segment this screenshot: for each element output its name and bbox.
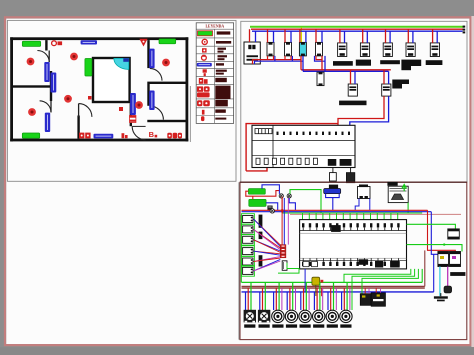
wires to detector D1	[339, 29, 341, 43]
svg-text:B: B	[149, 130, 155, 139]
interior wall: top-left room right	[45, 40, 47, 50]
label: mid-right room	[149, 91, 154, 111]
green feed to relay	[407, 224, 456, 229]
label right cluster	[450, 272, 465, 276]
legend column divider	[213, 29, 215, 123]
main control panel (lower)	[300, 220, 407, 269]
drop wires at x=332.3	[327, 292, 329, 310]
strobe sounder S1	[244, 310, 256, 323]
io module 5	[241, 256, 254, 267]
floor plan viewport frame	[7, 20, 236, 181]
striped strobe below corridor label	[130, 116, 136, 123]
smoke detector head D2	[360, 43, 369, 57]
legend row 6: hydrant symbol	[203, 69, 207, 72]
label under sounder S8	[340, 324, 351, 327]
distribution bus pink	[290, 213, 461, 215]
alarm shield symbol top-right	[140, 39, 147, 45]
module M2	[285, 42, 292, 56]
interior wall: mid-right room left	[147, 84, 149, 106]
floor plan outer wall bottom	[10, 139, 188, 142]
legend box	[196, 23, 233, 124]
isolator M3	[299, 42, 306, 56]
green loop bus	[250, 26, 464, 28]
green loop from panel bottom g3	[344, 269, 411, 283]
end-of-line device	[444, 286, 452, 293]
legend row 4: door holder symbol	[202, 55, 207, 60]
lower panel bottom clamps	[302, 262, 304, 266]
interior wall: hallway left vertical	[50, 71, 52, 101]
junction connector J1	[279, 194, 283, 198]
label: bottom-left room	[45, 113, 50, 132]
junction connector J2	[287, 194, 291, 198]
drop wires at x=345.9	[341, 292, 343, 310]
bell sounder S5	[299, 310, 311, 322]
green loop from panel bottom g2	[362, 269, 418, 294]
distribution bus blue	[242, 211, 432, 213]
emergency light top-right	[159, 39, 176, 44]
emergency light bottom-left	[22, 133, 39, 138]
left io module column green riser	[240, 215, 242, 282]
green loop from panel bottom g1	[352, 269, 415, 310]
io module 6	[241, 266, 254, 277]
smoke detector head D4	[406, 43, 415, 57]
label: corridor riser	[130, 93, 136, 115]
door arc bottom-right corridor	[132, 126, 145, 139]
darker gray bottom bar	[0, 347, 474, 355]
power supply green block A	[248, 189, 265, 195]
riser to control panel	[338, 96, 384, 125]
battery unit 2	[371, 293, 385, 307]
top schematic panel frame	[241, 21, 467, 182]
lower panel top clamps	[302, 223, 304, 227]
green arrow marker	[402, 185, 407, 192]
fan coil (cyan quarter disc)	[114, 58, 129, 69]
interior wall: storage room (middle)	[93, 58, 130, 102]
label under sounder S5	[300, 324, 311, 327]
io column black bars	[259, 215, 263, 228]
bus junction connector	[270, 209, 274, 213]
emergency light top-left	[22, 41, 40, 46]
drop wires at x=264.1	[259, 292, 261, 310]
loop wiring below modules	[253, 60, 302, 64]
smoke detector 3	[64, 95, 72, 103]
io module 1	[241, 214, 254, 225]
wall speaker device	[387, 182, 397, 186]
lower schematic panel frame	[240, 182, 467, 339]
wires to detector D5	[432, 29, 434, 43]
wires to detector D4	[407, 29, 409, 43]
smoke detector 2	[70, 53, 78, 61]
sub-loop detector T2	[348, 84, 357, 96]
wires to module M2	[284, 28, 286, 30]
bell sounder S3	[272, 310, 284, 322]
hanging module below panel	[332, 168, 334, 173]
smoke detector head D5	[430, 43, 439, 57]
door arc top-right room	[150, 68, 162, 80]
drop wires at x=305.1	[300, 292, 302, 310]
label: bottom corridor	[94, 134, 114, 139]
drop wires at x=249.8	[245, 292, 247, 310]
battery unit 1	[360, 294, 371, 306]
right riser red	[428, 210, 456, 258]
small red devices bottom-center	[122, 133, 125, 138]
drop wires at x=318.7	[313, 292, 315, 310]
green return loop	[278, 263, 299, 273]
distribution bus green	[282, 212, 422, 214]
right riser maroon elbow	[424, 250, 426, 286]
module below terminal block	[282, 261, 287, 271]
power supply green block B	[249, 199, 266, 206]
label under sounder S6	[313, 324, 324, 327]
interior wall: top-right room bottom	[147, 82, 185, 84]
wall shadow line right of plan	[189, 86, 191, 142]
legend row lines	[196, 28, 233, 30]
bell sounder S4	[285, 310, 297, 322]
door arc bottom-middle room	[79, 104, 92, 117]
drop wires at x=291.5	[286, 292, 288, 310]
call point small square 1	[119, 107, 123, 111]
floor plan outer wall top	[10, 37, 188, 40]
floor plan outer wall left	[10, 37, 13, 141]
svg-text:LEYENDA: LEYENDA	[206, 25, 225, 29]
bus end terminals	[463, 26, 466, 28]
upper panel bottom terminals	[256, 158, 260, 164]
interior wall: left rooms divider horizontal	[13, 85, 52, 87]
wires to module M1	[267, 28, 269, 30]
device label plates row 1	[333, 61, 353, 66]
bell sounder S7	[326, 310, 338, 322]
interior wall: mid-right room bottom	[147, 120, 185, 122]
riser bundle mid-left	[281, 197, 283, 245]
io module 2	[241, 224, 254, 235]
pale strip right of sheet	[471, 16, 474, 347]
buzzer module yellow	[312, 277, 320, 285]
drop wires at x=277.9	[273, 292, 275, 310]
green drops to panel terminals	[302, 213, 304, 224]
smoke detector 1	[27, 58, 35, 66]
module M1	[267, 42, 274, 56]
module M4	[316, 42, 323, 56]
legend row 10: pull station symbol	[202, 110, 205, 115]
door arc left-bottom room	[40, 101, 51, 113]
floor plan outer wall right	[186, 37, 189, 141]
strobe sounder S2	[258, 310, 270, 323]
control panel riser wires	[249, 29, 251, 42]
label: top-right room	[149, 49, 154, 69]
ground symbol	[440, 293, 442, 296]
wires to detector D2	[362, 29, 364, 43]
lower bus blue	[242, 291, 434, 293]
sounder cluster bottom-right	[167, 133, 172, 139]
wire fan to terminal block	[254, 219, 281, 245]
red wrap wire around panel	[246, 124, 338, 171]
smoke detector head D3	[383, 43, 392, 57]
sub-loop module T1	[317, 72, 324, 86]
yellow drop to isolator	[300, 28, 302, 43]
distribution bus red	[242, 209, 428, 211]
call point small square 2	[88, 96, 92, 100]
wires to module M4	[315, 28, 317, 30]
label under sounder S7	[327, 324, 338, 327]
door arc mid-right room	[150, 106, 164, 120]
control panel box	[244, 42, 260, 64]
blue siren module top-center	[329, 185, 338, 189]
blue loop bus	[252, 30, 463, 32]
upper panel terminal clamps	[277, 132, 279, 135]
legend row 9: siren symbol	[197, 100, 202, 106]
annunciator modules right	[438, 252, 449, 267]
cyan wire down	[439, 267, 441, 297]
label: hallway door 2	[51, 73, 57, 93]
horn device	[358, 187, 371, 199]
label: detector zone top	[81, 40, 97, 44]
label: hallway door 1	[44, 62, 49, 82]
label under sounder S2	[259, 324, 270, 327]
legend row 11: extinguisher symbol	[201, 116, 204, 121]
sub-loop detector T3	[382, 84, 391, 96]
sub-loop bus	[301, 69, 391, 71]
interior wall: bottom-middle vertical	[77, 116, 79, 139]
legend row 7: strobe symbol	[199, 78, 203, 84]
blue drop from panel bottom	[304, 269, 306, 292]
interior wall: below storage vertical	[130, 103, 132, 126]
alarm device symbol top wall	[52, 41, 57, 46]
label under sounder S1	[244, 324, 255, 327]
siren cluster bottom-left	[79, 133, 84, 139]
red wiring around supplies	[246, 191, 279, 197]
interior wall: top-right room left	[147, 40, 149, 68]
sub-loop labels	[339, 101, 366, 106]
fire alarm control panel (upper)	[252, 125, 355, 167]
legend row 3: call point symbol	[202, 48, 207, 52]
lower bus green	[242, 281, 423, 283]
bell sounder S6	[313, 310, 325, 322]
io module 3	[241, 235, 254, 246]
lower bus maroon pair	[242, 285, 425, 287]
wires to detector D3	[385, 29, 387, 43]
label under sounder S3	[272, 324, 283, 327]
relay module	[448, 229, 460, 239]
io module 4	[241, 246, 254, 257]
legend row 2: detector symbol	[202, 39, 207, 44]
emergency light storage room	[85, 59, 92, 77]
magenta wire down	[447, 267, 449, 287]
green wire from speaker	[407, 203, 409, 213]
bell sounder S8	[340, 310, 352, 322]
green feed from J2	[290, 190, 321, 213]
smoke detector 5	[135, 101, 143, 109]
red loop bus	[251, 28, 464, 30]
smoke detector 6	[162, 59, 170, 67]
label under sounder S4	[286, 324, 297, 327]
right riser blue	[431, 212, 449, 258]
legend row 1: emergency light symbol	[198, 31, 213, 36]
legend row 8: control panel symbol	[197, 86, 203, 91]
interface dark module	[267, 206, 272, 211]
legend row 5: zone label symbol	[197, 63, 212, 67]
door arc top-left room	[37, 50, 49, 62]
terminal block (red)	[280, 245, 286, 248]
smoke detector 4	[28, 108, 36, 116]
hanging dark module below panel	[350, 168, 352, 173]
smoke detector head D1	[338, 43, 347, 57]
wires to isolator M3	[299, 28, 301, 30]
blue feed from J2	[289, 198, 295, 210]
blue wiring around supplies	[262, 185, 279, 194]
